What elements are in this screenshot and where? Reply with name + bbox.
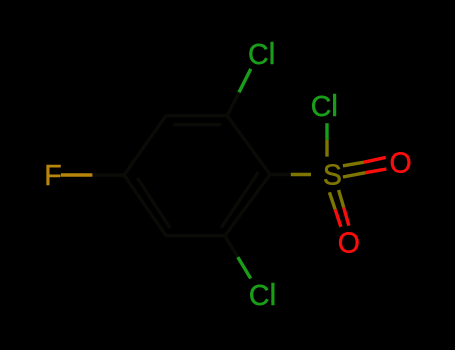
bond C4-F fluorine half xyxy=(61,173,93,176)
svg-text:Cl: Cl xyxy=(311,89,338,123)
bond C6-Cl carbon half (near-black) xyxy=(225,236,238,257)
svg-text:Cl: Cl xyxy=(249,278,276,312)
double bond S=O bottom, left line oxygen half xyxy=(335,210,341,227)
svg-text:F: F xyxy=(44,160,61,192)
double bond S=O right, upper line oxygen half xyxy=(364,157,386,162)
benzene ring (carbon skeleton, near-black) xyxy=(124,116,270,236)
bond C1-S carbon half (near-black) xyxy=(270,173,291,176)
aromatic inner bond top xyxy=(173,123,221,126)
double bond S=O bottom, right line oxygen half xyxy=(344,208,349,226)
aromatic inner bond bottom-left xyxy=(138,178,171,228)
svg-text:O: O xyxy=(390,147,412,179)
bond C2-Cl carbon half (near-black) xyxy=(227,92,239,115)
bond C1-S sulfur half xyxy=(291,173,311,176)
double bond S=O right, lower line sulfur half xyxy=(343,173,366,177)
aromatic inner bond right xyxy=(221,172,259,228)
bond C2-Cl chlorine half xyxy=(239,69,251,92)
double bond S=O bottom, left line sulfur half xyxy=(329,192,335,209)
bond C4-F carbon half (near-black) xyxy=(92,173,124,176)
bond S-Cl sulfur half xyxy=(325,140,328,157)
double bond S=O right, upper line sulfur half xyxy=(343,162,364,166)
bond C6-Cl chlorine half xyxy=(238,257,251,278)
svg-text:S: S xyxy=(323,159,342,191)
svg-text:O: O xyxy=(338,227,360,259)
double bond S=O right, lower line oxygen half xyxy=(366,169,387,173)
double bond S=O bottom, right line sulfur half xyxy=(339,190,344,208)
bond S-Cl chlorine half xyxy=(325,123,328,140)
svg-text:Cl: Cl xyxy=(248,37,275,71)
